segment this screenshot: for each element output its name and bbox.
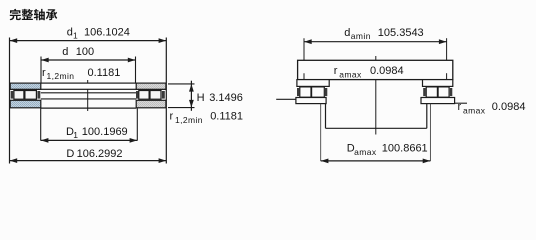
label D amax 100.8661 bbox=[347, 143, 428, 157]
svg-text:r: r bbox=[334, 65, 338, 77]
dimension line D1 bbox=[41, 138, 138, 143]
roller left 1 bbox=[14, 91, 24, 100]
svg-text:0.1181: 0.1181 bbox=[88, 67, 121, 79]
label d 100 bbox=[62, 46, 94, 58]
label D1 100.1969 bbox=[66, 126, 128, 140]
housing surface line left bbox=[276, 98, 296, 100]
H dimension ticks bbox=[168, 83, 195, 85]
svg-text:100: 100 bbox=[76, 46, 94, 58]
roller cap right inner bbox=[136, 91, 138, 99]
svg-text:amax: amax bbox=[339, 69, 362, 79]
dimension line D bbox=[10, 158, 167, 163]
roller right 2 bbox=[150, 91, 161, 100]
dimension line D amax bbox=[321, 159, 431, 164]
cage line middle upper bbox=[41, 92, 136, 94]
svg-text:105.3543: 105.3543 bbox=[378, 27, 424, 39]
svg-text:100.8661: 100.8661 bbox=[382, 143, 428, 155]
svg-text:amin: amin bbox=[351, 31, 371, 41]
svg-text:D: D bbox=[66, 148, 74, 160]
right fig right bearing bottom washer bbox=[421, 98, 455, 104]
extension line D amax left bbox=[320, 104, 322, 161]
svg-text:amax: amax bbox=[463, 105, 486, 115]
roller cap right outer bbox=[162, 91, 165, 99]
extension line outer left bbox=[9, 38, 11, 164]
label r amax 0.0984 in plate bbox=[334, 65, 404, 79]
top washer gray section bbox=[136, 83, 166, 89]
title 完整轴承 bbox=[10, 9, 58, 20]
housing block right edge bbox=[426, 104, 428, 129]
svg-text:3.1496: 3.1496 bbox=[209, 92, 243, 104]
cage line middle lower bbox=[41, 98, 136, 100]
svg-text:0.1181: 0.1181 bbox=[210, 110, 243, 122]
extension line outer right bbox=[165, 38, 167, 164]
bottom washer gray section bbox=[136, 100, 166, 108]
right fig left bearing cap inner bbox=[325, 88, 327, 96]
side view bottom edge bbox=[41, 107, 136, 109]
label d1 106.1024 bbox=[67, 27, 130, 41]
label r amax 0.0984 right bbox=[458, 101, 526, 115]
svg-text:amax: amax bbox=[354, 147, 377, 157]
label D 106.2992 bbox=[66, 148, 122, 160]
label r 1,2min 0.1181 right bbox=[170, 110, 244, 125]
extension line d amin left bbox=[303, 38, 305, 79]
dimension line d bbox=[41, 58, 136, 63]
centerline left figure bbox=[87, 80, 89, 111]
svg-text:1: 1 bbox=[73, 30, 78, 40]
svg-text:0.0984: 0.0984 bbox=[370, 65, 404, 77]
right fig left bearing roller 1 bbox=[300, 87, 311, 97]
shaft plate bbox=[298, 60, 453, 79]
right fig right bearing cap outer bbox=[450, 88, 453, 96]
extension line d amin right inside plate bbox=[446, 73, 448, 79]
roller cap left outer bbox=[11, 91, 14, 99]
extension line d amin left inside plate bbox=[303, 73, 305, 79]
roller cap left inner bbox=[37, 91, 40, 99]
right fig right bearing top washer bbox=[423, 80, 453, 87]
extension line inner right bottom bbox=[136, 108, 138, 140]
right fig left bearing cap outer bbox=[297, 88, 299, 96]
extension line inner right top bbox=[135, 57, 137, 84]
label d amin 105.3543 bbox=[344, 27, 423, 41]
extension line inner left top bbox=[40, 57, 42, 84]
right fig right bearing cap inner bbox=[423, 88, 425, 96]
housing surface line right bbox=[455, 102, 467, 104]
svg-text:H: H bbox=[197, 92, 205, 104]
right fig right bearing roller 1 bbox=[426, 87, 437, 97]
svg-text:100.1969: 100.1969 bbox=[82, 126, 128, 138]
bottom washer blue section bbox=[10, 100, 41, 108]
roller right 1 bbox=[139, 91, 149, 100]
right fig right bearing roller 2 bbox=[438, 87, 449, 97]
bearing top washer band bbox=[10, 83, 166, 89]
label H 3.1496 bbox=[197, 92, 243, 104]
svg-text:106.2992: 106.2992 bbox=[77, 148, 123, 160]
label r 1,2min 0.1181 top bbox=[42, 67, 120, 81]
svg-text:0.0984: 0.0984 bbox=[492, 101, 526, 113]
svg-text:1,2min: 1,2min bbox=[47, 71, 75, 81]
roller left 2 bbox=[25, 91, 37, 100]
right fig left bearing top washer bbox=[297, 80, 329, 87]
housing block bottom edge bbox=[326, 127, 427, 129]
dimension line d amin bbox=[304, 39, 447, 44]
svg-text:106.1024: 106.1024 bbox=[84, 27, 130, 39]
svg-text:r: r bbox=[170, 110, 174, 122]
svg-text:d: d bbox=[62, 46, 68, 58]
centerline right figure bbox=[375, 56, 377, 135]
svg-text:d: d bbox=[67, 27, 73, 39]
top washer blue section bbox=[10, 83, 41, 89]
right fig left bearing bottom washer bbox=[296, 98, 326, 104]
extension line inner left bottom bbox=[40, 108, 42, 140]
svg-text:1: 1 bbox=[73, 130, 78, 140]
svg-text:r: r bbox=[42, 67, 46, 79]
dimension line d1 bbox=[10, 38, 167, 43]
extension line D amax right bbox=[429, 104, 431, 161]
H dimension line bbox=[189, 81, 194, 111]
svg-text:1,2min: 1,2min bbox=[175, 115, 203, 125]
svg-text:r: r bbox=[458, 101, 462, 113]
right fig left bearing roller 2 bbox=[312, 87, 325, 97]
housing block left edge bbox=[325, 104, 327, 129]
svg-text:d: d bbox=[344, 27, 350, 39]
extension line d amin right bbox=[446, 38, 448, 79]
